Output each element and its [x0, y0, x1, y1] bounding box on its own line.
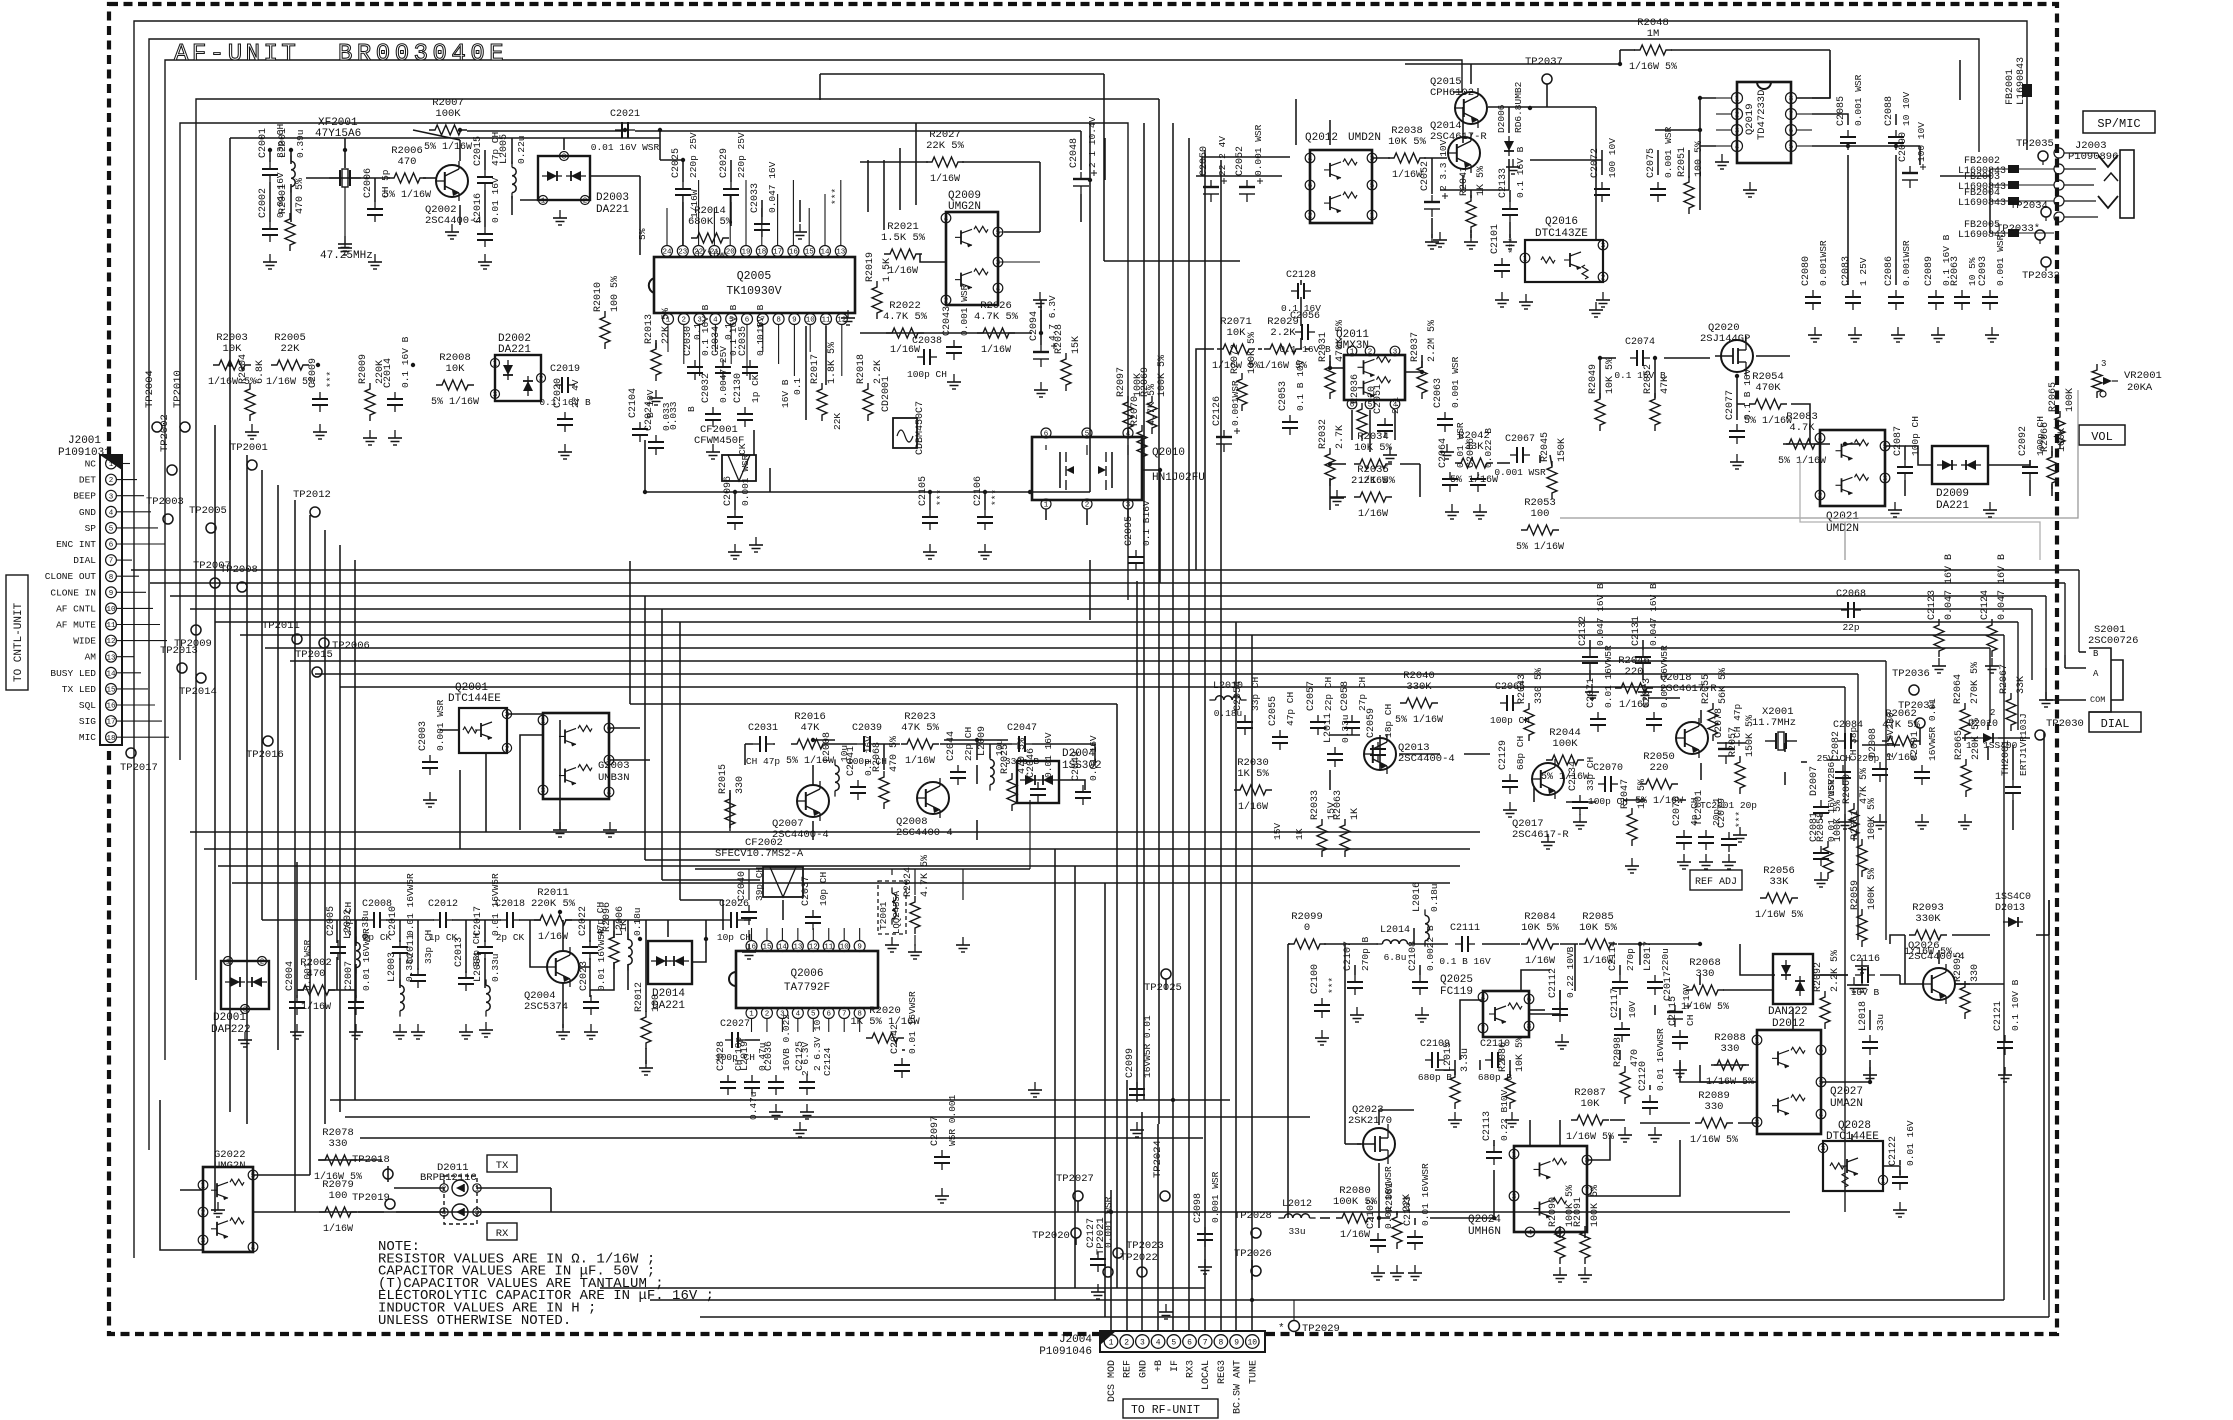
- resistor R2056: [1760, 893, 1798, 903]
- IC Q2005 pin 1: [663, 314, 674, 325]
- wire: [1680, 1060, 1757, 1082]
- IC Q2005 pin 7: [757, 314, 768, 325]
- svg-text:Q2012: Q2012: [1305, 132, 1338, 144]
- ground: [1431, 234, 1433, 242]
- wire: [1396, 1212, 1398, 1215]
- wire: [962, 161, 1040, 163]
- resistor R2021: [884, 249, 922, 259]
- capacitor C2063: [1444, 412, 1446, 419]
- svg-text:22K: 22K: [281, 343, 301, 355]
- resistor R2005: [271, 360, 309, 370]
- svg-text:470K: 470K: [1755, 382, 1781, 394]
- resistor R2096: [609, 931, 619, 969]
- wire: [459, 205, 461, 225]
- svg-text:J2004: J2004: [1059, 1334, 1092, 1346]
- capacitor C2085: [1847, 130, 1849, 137]
- svg-text:330: 330: [1721, 1043, 1740, 1055]
- resistor R2078: [319, 1155, 357, 1165]
- wire: [229, 480, 231, 1112]
- svg-text:470 5%: 470 5%: [889, 736, 900, 772]
- svg-text:TX LED: TX LED: [62, 684, 97, 695]
- capacitor C2051: [1384, 418, 1386, 425]
- wire: [1493, 1140, 1495, 1146]
- ground: [1705, 854, 1707, 862]
- wire: [1089, 180, 1091, 492]
- svg-text:C2044: C2044: [946, 731, 957, 761]
- svg-text:C2047: C2047: [1007, 723, 1037, 734]
- wire: [1431, 218, 1433, 238]
- junction: [1698, 128, 1702, 132]
- wire: [1756, 355, 1790, 357]
- capacitor C2029: [730, 182, 732, 189]
- svg-text:R2037: R2037: [1410, 332, 1421, 362]
- wire: [550, 1188, 552, 1212]
- svg-text:Q2021: Q2021: [1826, 511, 1859, 523]
- svg-text:COM: COM: [2090, 695, 2105, 705]
- wire: [1172, 123, 1174, 583]
- resistor R2065: [1961, 759, 1971, 797]
- wire: [1032, 743, 1095, 745]
- svg-text:Q2024: Q2024: [1468, 1214, 1501, 1226]
- svg-text:0.01 16VWSR: 0.01 16VWSR: [1655, 1028, 1666, 1091]
- svg-text:18: 18: [106, 735, 115, 743]
- svg-text:C2067: C2067: [1505, 434, 1535, 445]
- svg-text:220: 220: [1625, 666, 1644, 678]
- svg-text:1/16W 5%: 1/16W 5%: [1904, 946, 1952, 958]
- capacitor C2005: [337, 940, 339, 947]
- wire: [1642, 670, 1644, 680]
- wire: [324, 530, 326, 661]
- svg-text:4.7K 5%: 4.7K 5%: [1147, 384, 1158, 426]
- svg-text:C2109: C2109: [1420, 1039, 1450, 1050]
- wire: [1251, 635, 1253, 1280]
- svg-text:100p CH: 100p CH: [907, 369, 947, 380]
- svg-text:9: 9: [1234, 1339, 1239, 1348]
- svg-text:L2017: L2017: [1643, 941, 1654, 971]
- resistor L2015: [1450, 1071, 1460, 1109]
- IC Q2005 pin 12: [836, 314, 847, 325]
- svg-text:CLONE IN: CLONE IN: [50, 587, 96, 598]
- svg-text:4: 4: [1818, 436, 1823, 444]
- ground: [1097, 1284, 1099, 1292]
- svg-text:C2071: C2071: [1586, 678, 1597, 708]
- ground: [799, 224, 801, 232]
- svg-text:AM: AM: [85, 652, 97, 663]
- wire: [1094, 744, 1096, 765]
- capacitor C2093: [1989, 290, 1991, 297]
- capacitor C2075: [1657, 182, 1659, 189]
- wire: [1955, 983, 2004, 985]
- svg-text:2: 2: [442, 1186, 447, 1194]
- wire: [1639, 944, 1641, 965]
- svg-text:C2114: C2114: [1608, 941, 1619, 971]
- wire frame y123: [180, 123, 1128, 760]
- svg-text:1/16W: 1/16W: [1525, 955, 1555, 967]
- svg-text:33K: 33K: [1770, 876, 1790, 888]
- capacitor C2018: [500, 919, 507, 921]
- capacitor C2017: [484, 940, 486, 947]
- wire: [269, 150, 271, 162]
- svg-text:DIAL: DIAL: [2101, 717, 2130, 731]
- svg-text:UMD2N: UMD2N: [1348, 132, 1381, 144]
- svg-text:TP2017: TP2017: [120, 762, 158, 774]
- svg-text:1 25V: 1 25V: [1858, 257, 1869, 286]
- svg-text:***: ***: [1327, 977, 1338, 994]
- resistor R2045: [1547, 461, 1557, 499]
- svg-text:5: 5: [251, 1173, 256, 1181]
- ground: [344, 240, 346, 248]
- capacitor C2057: [1317, 715, 1319, 722]
- wire: [1126, 1080, 1128, 1100]
- svg-text:RX: RX: [496, 1228, 509, 1240]
- capacitor C2020: [564, 412, 566, 419]
- IC Q2005 pin 4: [710, 314, 721, 325]
- resistor R2016: [791, 739, 829, 749]
- svg-text:CDBM450C7: CDBM450C7: [915, 401, 926, 455]
- wire: [294, 635, 296, 1212]
- wire: [465, 920, 467, 973]
- svg-text:0.01 16V: 0.01 16V: [1905, 1120, 1916, 1166]
- wire: [459, 770, 461, 849]
- svg-text:2: 2: [201, 1210, 206, 1218]
- wire: [1464, 753, 1490, 755]
- wire: [562, 920, 564, 951]
- svg-text:C2122: C2122: [1888, 1136, 1899, 1166]
- IC Q2005 pin 22: [693, 246, 704, 257]
- wire: [645, 1048, 647, 1064]
- capacitor C2129: [1509, 774, 1511, 781]
- svg-text:C2095: C2095: [1124, 516, 1135, 546]
- svg-text:10K: 10K: [1581, 1098, 1601, 1110]
- capacitor C2080: [1812, 290, 1814, 297]
- svg-text:C2098: C2098: [1193, 1193, 1204, 1223]
- capacitor D2008: [1879, 762, 1881, 769]
- resistor R2058: [1823, 841, 1833, 879]
- wire: [1529, 1120, 1531, 1146]
- ferrite bead FB2002: [1990, 168, 2054, 170]
- svg-text:270p: 270p: [1625, 948, 1636, 971]
- svg-text:0.01 16V: 0.01 16V: [1043, 732, 1054, 778]
- svg-text:2 1SV2B6: 2 1SV2B6: [1885, 712, 1896, 758]
- wire: [1642, 640, 1644, 650]
- capacitor TH2001: [2012, 780, 2014, 787]
- wire: [1157, 1124, 1159, 1331]
- svg-text:FB2001: FB2001: [2005, 69, 2016, 105]
- resistor R2095: [1960, 981, 1970, 1019]
- wire: [1369, 410, 1371, 452]
- svg-text:TP2025: TP2025: [1144, 982, 1182, 994]
- capacitor C2090: [1909, 166, 1911, 173]
- svg-text:0.01 16VWSR: 0.01 16VWSR: [1420, 1163, 1431, 1226]
- connector J2001 pin 1 NC: [106, 458, 117, 469]
- wire: [1251, 1280, 1253, 1331]
- ground: [1591, 684, 1593, 692]
- wire: [682, 160, 684, 182]
- transistor array G2022 UMG2N: [203, 1167, 253, 1252]
- capacitor C2058: [1351, 715, 1353, 722]
- capacitor C2043: [953, 340, 955, 347]
- wire: [1829, 50, 1831, 98]
- resistor R2029: [1264, 344, 1302, 354]
- ferrite bead FB2004: [1990, 200, 2054, 202]
- IC Q2005 pin 24: [662, 246, 673, 257]
- ground: [655, 390, 657, 398]
- wire: [1895, 155, 1897, 285]
- svg-text:2SC00726: 2SC00726: [2088, 635, 2138, 647]
- junction: [1894, 144, 1898, 148]
- wire: [1664, 357, 1710, 359]
- wire: [1479, 1060, 1481, 1070]
- capacitor C2095: [1135, 550, 1137, 557]
- svg-text:D2012: D2012: [1772, 1018, 1805, 1030]
- ground: [451, 224, 453, 232]
- wire mid bus: [131, 569, 2079, 571]
- transistor array Q2009 UMG2N: [946, 212, 998, 305]
- junction: [1735, 374, 1739, 378]
- svg-text:0.001 WSR: 0.001 WSR: [1253, 124, 1264, 176]
- svg-text:10 5%: 10 5%: [1967, 257, 1978, 286]
- connector J2001 pin 9 CLONE IN: [106, 587, 117, 598]
- wire: [2043, 732, 2045, 1300]
- resistor R2008: [436, 380, 474, 390]
- wire bus y1100: [330, 1099, 1230, 1101]
- svg-text:0.22u: 0.22u: [516, 135, 527, 164]
- capacitor C2117: [1621, 1022, 1623, 1029]
- svg-text:L2006: L2006: [615, 906, 626, 936]
- wire: [1354, 965, 1356, 975]
- wire: [1587, 1135, 1610, 1160]
- svg-text:13: 13: [793, 944, 803, 952]
- wire: [1235, 622, 1237, 1317]
- ground: [1820, 872, 1822, 880]
- svg-text:C2116: C2116: [1850, 954, 1880, 965]
- svg-text:L2004: L2004: [473, 952, 484, 982]
- junction: [1158, 468, 1162, 472]
- junction: [1638, 942, 1642, 946]
- inductor L2014: [1382, 940, 1390, 944]
- junction: [1653, 356, 1657, 360]
- transistor array Q2027 UMA2N: [1757, 1030, 1821, 1134]
- capacitor C2102: [1377, 1233, 1379, 1240]
- ground: [319, 424, 321, 432]
- svg-text:TP2033*: TP2033*: [1996, 223, 2040, 235]
- resistor R2057: [1735, 756, 1745, 794]
- svg-text:C2084: C2084: [1833, 720, 1863, 731]
- ground: [1644, 684, 1646, 692]
- wire: [511, 196, 513, 215]
- svg-text:C2053: C2053: [1278, 381, 1289, 411]
- capacitor C2066: [1477, 472, 1479, 479]
- svg-text:TP2019: TP2019: [352, 1192, 390, 1204]
- wire: [659, 130, 661, 160]
- svg-text:L2001: L2001: [278, 128, 289, 158]
- wire: [1103, 74, 1105, 261]
- capacitor C2048: [1080, 172, 1082, 179]
- resistor R2007: [429, 125, 467, 135]
- wire frame y99: [196, 99, 1159, 980]
- diode array D2001 DAP222: [221, 961, 269, 1009]
- svg-text:C2024: C2024: [644, 401, 655, 431]
- ground: [953, 374, 955, 382]
- wire: [1075, 1238, 1077, 1245]
- svg-text:GND: GND: [1138, 1360, 1149, 1378]
- wire: [1648, 697, 1680, 699]
- junction: [1328, 462, 1332, 466]
- connector J2001 pin 18 MIC: [106, 732, 117, 743]
- svg-text:C2089: C2089: [1924, 256, 1935, 286]
- svg-text:R2065: R2065: [2048, 382, 2059, 412]
- svg-text:BUSY LED: BUSY LED: [50, 668, 96, 679]
- svg-text:B: B: [2093, 649, 2099, 659]
- junction: [1420, 370, 1424, 374]
- wire: [1530, 159, 1602, 161]
- ground: [1854, 327, 1856, 335]
- svg-text:1SS4C0: 1SS4C0: [1995, 892, 2031, 903]
- wire: [246, 596, 248, 1124]
- wire: [1600, 357, 1616, 359]
- capacitor C2036: [775, 1075, 777, 1082]
- capacitor C2121: [2004, 1035, 2006, 1042]
- ground: [564, 444, 566, 452]
- wire: [1159, 470, 1161, 560]
- svg-text:5% 1/16W: 5% 1/16W: [1395, 714, 1443, 726]
- svg-text:0.001 WSR: 0.001 WSR: [1210, 1171, 1221, 1223]
- resistor R2028: [1061, 353, 1071, 391]
- wire: [1372, 157, 1390, 159]
- svg-text:2SJ144GP: 2SJ144GP: [1700, 333, 1750, 345]
- capacitor C2059: [1377, 742, 1379, 749]
- ground: [217, 1202, 219, 1210]
- wire: [1470, 230, 1472, 238]
- capacitor C2096: [734, 510, 736, 517]
- svg-text:TP2035: TP2035: [2016, 138, 2054, 150]
- svg-text:11: 11: [106, 622, 116, 630]
- wire: [519, 919, 541, 921]
- svg-text:14: 14: [106, 670, 116, 678]
- svg-text:4: 4: [1481, 995, 1486, 1003]
- svg-text:***: ***: [1734, 811, 1745, 828]
- connector J2004 pin 4 +B: [1151, 1335, 1165, 1349]
- ground: [296, 1024, 298, 1032]
- wire: [1320, 1217, 1330, 1219]
- svg-text:C2099: C2099: [1125, 1048, 1136, 1078]
- svg-text:C2121: C2121: [1993, 1001, 2004, 1031]
- wire: [1287, 944, 1289, 1218]
- svg-text:A: A: [2093, 669, 2099, 679]
- capacitor C2086: [1895, 290, 1897, 297]
- ground: [1991, 658, 1993, 666]
- wire: [530, 920, 548, 967]
- junction: [1698, 96, 1702, 100]
- svg-text:R2063: R2063: [1950, 256, 1961, 286]
- svg-text:REF ADJ: REF ADJ: [1695, 877, 1737, 888]
- testpoint TP2035: [2038, 151, 2048, 161]
- wire: [1904, 935, 1906, 984]
- svg-text:220: 220: [1650, 762, 1669, 774]
- testpoint TP2033: [2035, 230, 2045, 240]
- wire: [229, 138, 231, 480]
- resistor R2035: [1354, 492, 1392, 502]
- svg-text:C2078: C2078: [1714, 708, 1725, 738]
- capacitor C2047: [1012, 743, 1019, 745]
- testpoint TP2020: [1071, 1228, 1081, 1238]
- svg-text:L1690843: L1690843: [2016, 57, 2027, 105]
- svg-text:FC119: FC119: [1440, 986, 1473, 998]
- svg-text:CK: CK: [737, 443, 748, 455]
- svg-text:33u: 33u: [1875, 1014, 1886, 1031]
- testpoint TP2019: [385, 1199, 395, 1209]
- svg-text:470K 5%: 470K 5%: [1335, 320, 1346, 362]
- svg-text:2SC4400-4: 2SC4400-4: [896, 827, 953, 839]
- ground: [251, 424, 253, 432]
- ground: [1584, 1267, 1586, 1275]
- svg-text:TO CNTL-UNIT: TO CNTL-UNIT: [13, 602, 25, 682]
- resistor R2067: [2006, 693, 2016, 731]
- resistor C2124: [1987, 619, 1997, 657]
- wire: [1899, 1160, 1901, 1165]
- IC Q2005 pin 8: [773, 314, 784, 325]
- svg-text:4: 4: [996, 286, 1001, 294]
- transistor array G2003 UMB3N: [543, 713, 609, 799]
- svg-text:C2124: C2124: [822, 1047, 833, 1076]
- capacitor C2013: [465, 971, 467, 978]
- capacitor C2091: [1921, 765, 1923, 772]
- svg-text:5: 5: [1883, 444, 1888, 452]
- capacitor L2018: [1869, 1035, 1871, 1042]
- capacitor C2053: [1289, 415, 1291, 422]
- ground: [1894, 502, 1896, 510]
- wire: [1330, 367, 1344, 369]
- testpoint TP2034: [2041, 207, 2051, 217]
- svg-text:UNLESS OTHERWISE NOTED.: UNLESS OTHERWISE NOTED.: [378, 1313, 571, 1329]
- wire: [294, 500, 296, 635]
- resistor R2091: [1580, 1226, 1590, 1264]
- svg-text:C2101: C2101: [1490, 224, 1501, 254]
- svg-text:C2065: C2065: [1495, 682, 1525, 693]
- wire: [374, 178, 376, 202]
- svg-text:7: 7: [1481, 1026, 1486, 1034]
- svg-text:L2002: L2002: [343, 909, 354, 939]
- ground: [1451, 504, 1453, 512]
- ground: [1525, 294, 1527, 302]
- svg-text:R2049: R2049: [1588, 364, 1599, 394]
- testpoint TP2028: [1251, 1228, 1261, 1238]
- wire: [1329, 120, 1331, 145]
- svg-text:L1690843: L1690843: [1958, 198, 2006, 209]
- coil T2001 dashed box: [878, 881, 906, 934]
- wire: [860, 332, 1032, 334]
- wire: [1104, 260, 1240, 262]
- wire: [635, 130, 1081, 132]
- wire: [1699, 146, 1701, 210]
- capacitor C2125: [806, 1075, 808, 1082]
- svg-text:1: 1: [1109, 1339, 1114, 1348]
- wire: [1812, 60, 1830, 98]
- svg-text:0.39u: 0.39u: [295, 129, 306, 158]
- svg-text:3: 3: [541, 788, 546, 796]
- svg-text:5: 5: [1370, 183, 1375, 191]
- svg-text:14: 14: [820, 249, 830, 257]
- svg-text:2: 2: [1601, 275, 1606, 283]
- capacitor C2042: [901, 1058, 903, 1065]
- ground: [1899, 1202, 1901, 1210]
- svg-text:0.18u: 0.18u: [1214, 708, 1243, 719]
- wire: [1847, 155, 1849, 285]
- IC Q2019 pin 7: [1786, 109, 1797, 120]
- junction: [658, 128, 662, 132]
- wire: [1599, 358, 1601, 398]
- wire: [520, 735, 543, 830]
